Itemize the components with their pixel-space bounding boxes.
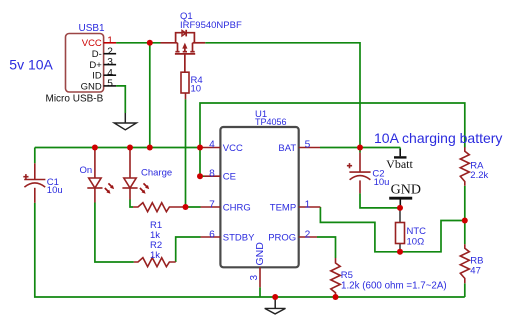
svg-text:D-: D- [92, 49, 102, 60]
svg-text:TEMP: TEMP [270, 202, 296, 213]
svg-text:R5: R5 [341, 270, 353, 281]
U1 pin 7 stub (CHRG) [201, 206, 221, 208]
svg-text:STDBY: STDBY [223, 232, 255, 243]
svg-text:5: 5 [305, 139, 311, 150]
wire vertical from VCC bus down to LED rail [149, 43, 151, 148]
svg-text:USB1: USB1 [79, 23, 106, 34]
capacitor C2 polarized [347, 153, 371, 194]
LED D1 light arrows [105, 183, 114, 193]
junction ground rail / ground symbol [272, 294, 278, 300]
wire top loop VCC to RA column [200, 103, 465, 148]
LED D1 On [87, 149, 102, 203]
svg-text:10: 10 [191, 84, 202, 95]
svg-text:Vbatt: Vbatt [386, 157, 413, 171]
svg-text:8: 8 [209, 169, 215, 180]
junction CE node [197, 173, 203, 179]
svg-text:D+: D+ [89, 60, 102, 71]
svg-text:5: 5 [107, 79, 113, 90]
junction ground rail / R5 [333, 294, 339, 300]
svg-text:Charge: Charge [141, 168, 172, 179]
wire STDBY to R2 [176, 237, 201, 262]
svg-text:GND: GND [81, 81, 102, 92]
wire RA bottom to RB top [464, 186, 466, 245]
connector USB1 body [66, 34, 104, 93]
USB1 pin 1 VCC stub [104, 42, 117, 44]
U1 pin 4 stub (VCC) [200, 147, 220, 149]
svg-text:VCC: VCC [223, 143, 243, 154]
svg-text:GND: GND [254, 242, 266, 266]
power flag Vbatt [394, 149, 407, 157]
svg-text:PROG: PROG [268, 232, 296, 243]
wire LED rail to U1 VCC [35, 147, 200, 149]
wire PROG to R5 [317, 237, 336, 258]
wire U1 GND pin to ground rail [259, 287, 261, 297]
junction at VCC bus / vertical [147, 40, 153, 46]
svg-text:4: 4 [107, 68, 113, 79]
U1 pin 2 stub (PROG) [299, 236, 317, 238]
resistor R4 lead [185, 93, 187, 99]
U1 pin 6 stub (STDBY) [201, 236, 221, 238]
svg-text:NTC: NTC [407, 226, 427, 237]
svg-text:IRF9540NPBF: IRF9540NPBF [180, 20, 242, 31]
wire VCC bus from USB1 pin1 to Q1 [116, 42, 160, 44]
svg-text:GND: GND [391, 183, 421, 198]
wire C1 bottom to ground rail [35, 203, 465, 297]
svg-text:TP4056: TP4056 [255, 117, 287, 127]
LED D2 Charge [122, 149, 137, 200]
svg-text:CHRG: CHRG [223, 202, 251, 213]
svg-text:Micro USB-B: Micro USB-B [46, 94, 104, 105]
resistor RA zigzag [460, 147, 469, 186]
svg-text:BAT: BAT [278, 143, 296, 154]
svg-text:47: 47 [470, 266, 481, 277]
USB1 pin 2 stub [104, 53, 117, 55]
USB1 pin 5 stub [104, 85, 117, 87]
svg-text:10Ω: 10Ω [407, 237, 425, 248]
U1 pin 5 stub (BAT) [299, 147, 320, 149]
wire Vbatt corner [399, 148, 401, 151]
transistor Q1 P-MOSFET body [161, 30, 206, 72]
wire USB GND to ground symbol [116, 86, 125, 113]
junction NTC bottom node [397, 249, 403, 255]
wire Q1 drain to BAT node [205, 43, 360, 148]
svg-text:3: 3 [107, 57, 113, 68]
resistor R4 body [181, 72, 189, 93]
junction LED rail / vertical [147, 145, 153, 151]
junction BAT node [357, 145, 363, 151]
ground symbol below USB1 [124, 113, 126, 123]
U1 pin 1 stub (TEMP) [299, 206, 321, 208]
wire RB bottom to ground rail [464, 283, 466, 297]
svg-text:10u: 10u [374, 177, 390, 188]
svg-text:VCC: VCC [82, 38, 102, 49]
svg-text:1.2k (600 ohm =1.7~2A): 1.2k (600 ohm =1.7~2A) [341, 281, 447, 292]
wire C2 bottom to NTC top node [360, 193, 400, 208]
svg-text:10u: 10u [47, 185, 63, 196]
ground symbol at bottom rail [274, 297, 276, 308]
wire BAT pin to Vbatt and C2 [320, 147, 400, 149]
junction On LED top [92, 145, 98, 151]
USB1 pin 4 stub [104, 74, 117, 76]
svg-text:3: 3 [249, 275, 260, 281]
capacitor C1 polarized [23, 163, 45, 203]
svg-text:CE: CE [223, 172, 236, 183]
wire TEMP to NTC bottom and RA/RB node [320, 207, 464, 252]
svg-text:7: 7 [209, 199, 215, 210]
resistor RB zigzag [460, 244, 469, 283]
resistor R1 zigzag [133, 203, 186, 212]
svg-text:6: 6 [209, 229, 215, 240]
wire R4 bottom to CHRG node [186, 99, 201, 207]
U1 pin 8 stub (CE) [204, 175, 220, 177]
svg-text:2: 2 [305, 229, 311, 240]
resistor R5 zigzag [331, 258, 340, 297]
junction CHRG node [183, 204, 189, 210]
IC U1 body [220, 127, 298, 267]
wire VCC node to CE pin [200, 148, 204, 177]
USB1 pin 3 stub [104, 64, 117, 66]
wire On-LED cathode to R2 [95, 203, 134, 263]
resistor R2 zigzag [134, 258, 176, 267]
svg-text:ID: ID [92, 71, 102, 82]
junction NTC top node [397, 205, 403, 211]
LED D2 light arrows [140, 183, 149, 193]
power flag GND bar [389, 198, 412, 208]
U1 pin 3 stub (GND) [259, 267, 261, 287]
svg-text:2.2k: 2.2k [470, 170, 488, 181]
svg-text:2: 2 [107, 46, 113, 57]
svg-text:4: 4 [209, 139, 215, 150]
svg-text:1k: 1k [150, 250, 160, 261]
wire left rail to C1 [34, 148, 36, 164]
wire Charge-LED cathode to R1 [130, 200, 133, 208]
junction RA/RB node [462, 218, 468, 224]
thermistor NTC leads [399, 208, 401, 223]
svg-text:5v 10A: 5v 10A [9, 57, 53, 73]
svg-text:10A charging battery: 10A charging battery [374, 130, 502, 146]
wire C2 top [359, 148, 361, 153]
thermistor NTC body [396, 223, 405, 244]
svg-text:1: 1 [107, 35, 113, 46]
svg-text:1: 1 [305, 199, 311, 210]
svg-text:On: On [80, 165, 93, 176]
junction Charge LED top [127, 145, 133, 151]
junction U1 VCC node [197, 145, 203, 151]
